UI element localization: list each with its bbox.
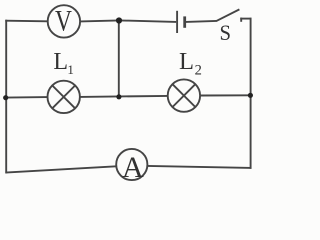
lamp L1 cross (52, 86, 75, 109)
svg-text:V: V (55, 4, 72, 37)
svg-text:L: L (179, 48, 194, 75)
lamp L2 cross (173, 84, 196, 107)
ammeter A1 circle (116, 149, 147, 180)
wire switch to top-right corner (240, 18, 251, 20)
wire middle vertical (junction to lamps wire) (118, 20, 120, 96)
switch right contact tick (240, 18, 242, 22)
wire between L1 and L2 (80, 96, 168, 97)
junction dot right middle (248, 93, 253, 98)
wire right vertical (250, 18, 252, 169)
junction dot middle (between lamps) (116, 94, 121, 99)
wire bottom-right (148, 166, 252, 168)
wire bottom-left (5, 166, 116, 172)
junction dot top (node between V and battery) (116, 17, 122, 23)
wire middle left (to L1) (5, 96, 47, 99)
svg-text:S: S (219, 20, 231, 45)
wire top-left horizontal (5, 20, 47, 23)
battery short plate (negative) (183, 16, 186, 27)
wire left vertical (5, 20, 7, 174)
lamp L1 circle (48, 81, 80, 113)
junction dot left middle (3, 95, 8, 100)
wire battery to switch (186, 21, 217, 22)
switch S blade (216, 9, 239, 21)
wire L2 to right vertical (201, 94, 252, 96)
svg-text:2: 2 (195, 62, 202, 78)
battery long plate (positive) (176, 11, 178, 33)
wire junction to battery (119, 20, 176, 22)
lamp L2 circle (168, 79, 200, 111)
svg-text:L: L (53, 49, 68, 75)
svg-text:A: A (122, 151, 144, 184)
svg-text:1: 1 (67, 62, 74, 77)
voltmeter V1 circle (48, 5, 80, 37)
wire top middle (V to junction) (80, 20, 119, 21)
